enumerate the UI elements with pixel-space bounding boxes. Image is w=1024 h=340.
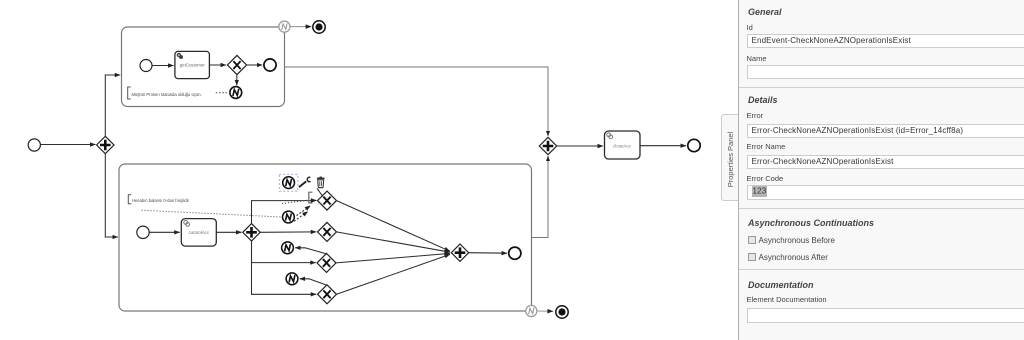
svg-text:closeAcc: closeAcc	[613, 144, 632, 149]
svg-text:controlAcc: controlAcc	[189, 230, 210, 235]
svg-text:Müştəri Prosen statusda olduğu: Müştəri Prosen statusda olduğu üçün.	[132, 92, 202, 97]
svg-text:getCustomer: getCustomer	[180, 63, 206, 68]
svg-text:Hesabın balansı 0-dan fərqlidi: Hesabın balansı 0-dan fərqlidir	[132, 198, 190, 203]
